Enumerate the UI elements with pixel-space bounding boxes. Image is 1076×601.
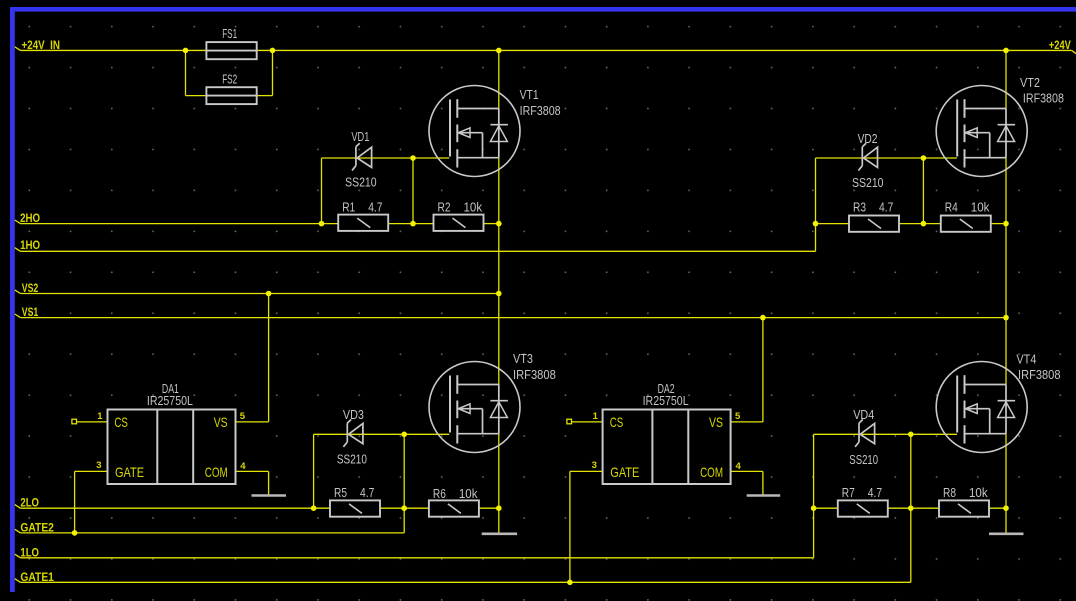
svg-text:IRF3808: IRF3808 [513,367,556,382]
svg-text:5: 5 [735,411,741,422]
svg-text:IRF3808: IRF3808 [1023,91,1064,106]
svg-text:VD3: VD3 [343,407,364,422]
svg-text:FS2: FS2 [222,72,237,87]
svg-text:CS: CS [610,414,624,430]
svg-text:VD2: VD2 [858,131,878,146]
svg-text:VT1: VT1 [520,87,539,102]
svg-text:R6: R6 [433,486,446,501]
svg-text:SS210: SS210 [345,175,377,190]
svg-text:VT4: VT4 [1016,352,1036,367]
svg-text:VT3: VT3 [513,351,533,366]
svg-text:10k: 10k [464,199,483,214]
svg-text:4: 4 [240,461,246,472]
svg-text:IR25750L: IR25750L [643,393,689,408]
svg-text:4.7: 4.7 [879,199,893,214]
svg-text:R8: R8 [943,485,956,500]
svg-text:IR25750L: IR25750L [147,393,193,408]
svg-text:SS210: SS210 [852,175,884,190]
svg-text:1HO: 1HO [20,240,40,252]
svg-text:IRF3808: IRF3808 [520,103,561,118]
svg-text:GATE: GATE [115,464,144,480]
svg-text:2LO: 2LO [20,498,39,510]
svg-text:4.7: 4.7 [360,485,374,500]
svg-text:4: 4 [736,461,742,472]
svg-text:+24V: +24V [1049,40,1071,52]
svg-text:R5: R5 [334,485,347,500]
svg-text:R7: R7 [842,485,855,500]
svg-text:10k: 10k [971,200,990,215]
svg-text:R3: R3 [853,199,866,214]
svg-text:3: 3 [96,460,101,471]
svg-text:R4: R4 [945,200,958,215]
svg-text:3: 3 [592,460,597,471]
svg-text:VS2: VS2 [22,283,39,295]
svg-text:4.7: 4.7 [868,485,882,500]
svg-text:SS210: SS210 [337,452,367,467]
svg-text:COM: COM [700,464,723,480]
svg-text:R1: R1 [342,199,355,214]
svg-text:10k: 10k [969,485,988,500]
svg-text:VS: VS [214,414,228,430]
svg-text:R2: R2 [438,199,451,214]
svg-text:5: 5 [240,411,246,422]
svg-text:CS: CS [114,414,128,430]
svg-text:SS210: SS210 [849,452,878,467]
svg-text:VS: VS [709,414,723,430]
svg-text:GATE: GATE [610,464,639,480]
svg-text:COM: COM [205,464,228,480]
svg-text:1LO: 1LO [20,547,39,559]
svg-text:VD1: VD1 [351,129,369,144]
svg-text:1: 1 [97,411,103,422]
svg-text:VT2: VT2 [1020,75,1040,90]
svg-text:IRF3808: IRF3808 [1018,367,1061,382]
svg-text:VD4: VD4 [853,407,874,422]
svg-text:10k: 10k [459,486,478,501]
svg-text:+24V_IN: +24V_IN [22,40,61,52]
svg-text:VS1: VS1 [22,307,39,319]
svg-text:GATE1: GATE1 [20,572,54,584]
svg-text:4.7: 4.7 [368,199,382,214]
svg-text:1: 1 [593,411,599,422]
svg-text:GATE2: GATE2 [20,522,54,534]
svg-text:FS1: FS1 [222,26,237,41]
svg-text:2HO: 2HO [20,213,40,225]
